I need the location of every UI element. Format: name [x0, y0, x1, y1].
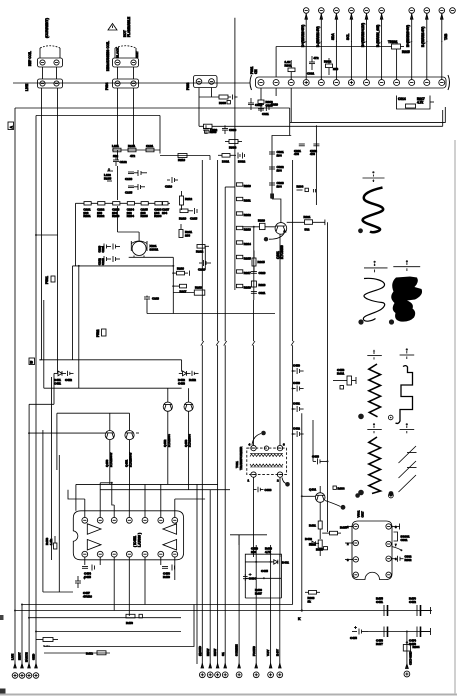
svg-text:470/16: 470/16	[83, 594, 92, 598]
svg-text:C465: C465	[261, 569, 268, 573]
svg-text:1k: 1k	[308, 599, 312, 603]
pin 13	[158, 551, 164, 557]
connector P603	[113, 58, 139, 67]
C460 on x292.6	[292, 381, 304, 392]
labels above box	[251, 547, 272, 554]
terminal pin TAB	[450, 8, 456, 14]
cap C102	[113, 155, 127, 166]
svg-text:C451: C451	[54, 381, 61, 385]
terminal M7	[268, 664, 274, 678]
winding secondary	[250, 464, 283, 466]
wire y226.8 base line	[242, 219, 275, 301]
svg-text:CRT-GND: CRT-GND	[409, 651, 413, 665]
right-mid cluster R210	[179, 208, 198, 221]
resistor R317	[236, 270, 251, 275]
svg-text:R205: R205	[141, 214, 149, 218]
svg-text:473: 473	[294, 152, 299, 156]
svg-text:R459: R459	[163, 575, 170, 579]
pin 2 bottom-right	[277, 472, 282, 477]
resistor R471	[43, 638, 53, 642]
svg-text:C463: C463	[312, 455, 319, 459]
svg-text:R485: R485	[316, 548, 323, 552]
svg-text:TRANSFORMER: TRANSFORMER	[239, 446, 243, 470]
CRT socket	[345, 521, 397, 580]
waveform W6 zigzag	[358, 437, 393, 496]
svg-text:R477: R477	[376, 642, 383, 646]
svg-text:R476: R476	[409, 597, 416, 601]
connector P602	[38, 79, 63, 88]
connector P604	[113, 79, 139, 88]
svg-text:R481: R481	[309, 524, 316, 528]
svg-text:C213: C213	[101, 258, 105, 265]
big caps row2 C473	[376, 627, 388, 646]
svg-text:B: B	[30, 360, 33, 365]
svg-text:P501: P501	[45, 276, 49, 284]
C459 on x292.6	[292, 364, 304, 375]
svg-text:WHT: WHT	[135, 51, 139, 58]
wire y313.5	[147, 300, 275, 313]
label P501	[45, 276, 55, 284]
wire y631.5	[36, 631, 181, 633]
svg-text:D461: D461	[282, 561, 289, 565]
svg-text:C461: C461	[293, 402, 300, 406]
diode pair D451	[54, 371, 74, 386]
middle vertical bundle wires	[197, 160, 293, 664]
svg-text:FOCUS: FOCUS	[252, 646, 256, 656]
inductor L102	[104, 169, 113, 181]
svg-text:R216: R216	[177, 267, 184, 271]
svg-text:473: 473	[310, 152, 315, 156]
R816 cluster below bar left	[258, 100, 273, 112]
svg-text:S0381: S0381	[150, 247, 159, 251]
svg-text:R314: R314	[244, 242, 251, 246]
svg-text:C458: C458	[337, 368, 345, 372]
resistors R470 on y616	[126, 614, 142, 625]
svg-text:SCL: SCL	[346, 34, 350, 40]
svg-text:E-(WARM-9V): E-(WARM-9V)	[421, 27, 425, 47]
svg-text:P803: P803	[186, 82, 190, 90]
svg-text:C901: C901	[401, 538, 408, 542]
wires around quads	[54, 373, 189, 489]
wire break marks y343	[201, 341, 294, 346]
svg-text:DEGAUSSING COIL: DEGAUSSING COIL	[106, 41, 110, 71]
terminal T3	[26, 664, 32, 679]
vertical x272 with caps	[269, 136, 291, 200]
pin 9	[97, 551, 103, 557]
wire x29.1 down	[28, 404, 30, 668]
svg-text:C452: C452	[65, 378, 72, 382]
C902 cap right	[391, 555, 412, 562]
pin 6	[158, 517, 164, 523]
svg-text:L101: L101	[112, 144, 119, 148]
svg-text:4.7k: 4.7k	[265, 550, 271, 554]
D462 cluster	[305, 537, 328, 552]
svg-text:4.7k: 4.7k	[417, 101, 423, 105]
svg-text:R101: R101	[128, 144, 136, 148]
R804 under bus	[225, 140, 242, 150]
pin 7	[172, 517, 178, 523]
wire coil1 pins	[39, 67, 57, 505]
wire y604.5	[22, 604, 293, 606]
small bits y186-196	[297, 185, 316, 193]
bus y126.3	[199, 125, 443, 127]
svg-text:R202: R202	[97, 214, 105, 218]
transistor Q301	[264, 199, 287, 259]
svg-text:C103: C103	[125, 177, 133, 181]
svg-text:R317: R317	[244, 271, 251, 275]
socket pin L4	[353, 572, 358, 577]
svg-text:472: 472	[130, 154, 135, 158]
svg-text:C211: C211	[101, 246, 105, 253]
big caps row1 C472	[409, 597, 431, 616]
terminal pin 7	[409, 8, 415, 80]
caps pair row 1	[98, 244, 121, 253]
svg-text:R312: R312	[244, 213, 251, 217]
resistor R315 vertical	[252, 251, 265, 273]
component y195-207	[180, 191, 193, 210]
page bottom edge	[0, 694, 457, 696]
svg-text:(E)GND: (E)GND	[198, 646, 202, 656]
diode pair D452	[178, 371, 199, 386]
cap block 3 (C203/R203)	[112, 202, 120, 218]
transformer feed wires	[254, 234, 281, 557]
pin 2	[97, 517, 103, 523]
svg-text:D-(WARM-5V): D-(WARM-5V)	[316, 26, 320, 47]
resistor R216	[172, 267, 189, 276]
socket pin R1	[386, 524, 391, 529]
svg-text:K: K	[298, 617, 301, 621]
wire: y235 stub	[36, 234, 58, 236]
wire X201 top	[118, 206, 140, 232]
svg-text:SDA: SDA	[331, 33, 335, 40]
svg-text:104: 104	[277, 168, 282, 172]
label P502 box	[96, 329, 106, 337]
svg-text:R904: R904	[413, 645, 420, 649]
wire bus y388.2	[44, 387, 182, 389]
C814 box below bar	[397, 96, 443, 127]
terminal pin 4	[349, 8, 355, 80]
R462 under transformer	[254, 487, 272, 492]
cap C105	[125, 184, 145, 195]
svg-text:CRT: CRT	[361, 511, 365, 517]
cluster on x302 top	[294, 144, 305, 156]
coil L601 body	[40, 46, 60, 58]
svg-text:B-(WARM_GN): B-(WARM_GN)	[376, 25, 380, 47]
D463 cluster above	[308, 542, 310, 544]
terminal pin 8	[424, 8, 430, 80]
bottom-middle terminals	[198, 644, 283, 677]
svg-text:R802: R802	[324, 60, 332, 64]
cap block 4 (C204/R204)	[127, 202, 135, 218]
svg-text:FLAMMABLE: FLAMMABLE	[127, 17, 131, 37]
svg-text:R204: R204	[127, 214, 135, 218]
cap pair row	[125, 170, 147, 181]
pin 10	[111, 551, 117, 557]
scope marker M4	[367, 350, 382, 360]
curve to dot from pin4	[252, 434, 261, 446]
cluster C216	[198, 260, 211, 272]
wire y222.3 right of Q301	[287, 215, 325, 232]
svg-text:R815: R815	[402, 50, 410, 54]
svg-text:C311: C311	[259, 291, 266, 295]
scope marker M7	[400, 423, 415, 433]
wire emitter bus y257.3	[129, 256, 174, 314]
wire y484.4	[76, 484, 218, 510]
svg-text:CN: CN	[254, 69, 258, 74]
svg-text:104: 104	[277, 184, 282, 188]
svg-text:SCREEN: SCREEN	[235, 644, 239, 656]
resistor R313	[236, 226, 251, 231]
cap block 5 (C205/R205)	[141, 202, 149, 218]
pin 6 top-right	[277, 445, 282, 450]
spark gap right of socket	[391, 524, 410, 552]
svg-text:R320: R320	[258, 219, 265, 223]
svg-text:Q461: Q461	[309, 488, 316, 492]
svg-text:R315: R315	[258, 260, 266, 264]
svg-text:R318: R318	[244, 285, 251, 289]
waveform W1 thick sine	[358, 188, 383, 234]
svg-text:C812: C812	[255, 103, 263, 107]
cluster x316 top	[310, 144, 319, 156]
box R218	[173, 286, 205, 296]
wire y534.8 left of box	[230, 535, 267, 545]
wire y653	[44, 652, 110, 654]
svg-text:R112: R112	[185, 197, 192, 201]
scope marker M6	[367, 423, 382, 433]
connector P601	[38, 58, 63, 67]
bus y200 row of caps	[76, 202, 171, 266]
cap C218b	[144, 296, 159, 301]
caps under IC right	[162, 565, 175, 579]
svg-text:R902: R902	[405, 558, 412, 562]
terminal M3	[215, 664, 221, 678]
cluster caps under bus left	[203, 125, 237, 134]
resistor R482 vertical	[309, 540, 322, 556]
cap block 2 (C202/R202)	[97, 202, 105, 218]
wire y646.5	[44, 605, 194, 647]
scan artifact left margin	[0, 615, 4, 620]
svg-text:( IC451: ( IC451	[133, 536, 137, 547]
scan artifact bottom-left corner	[0, 689, 6, 694]
resistor R103	[146, 148, 154, 152]
svg-text:C459: C459	[293, 364, 300, 368]
svg-text:100: 100	[251, 550, 256, 554]
svg-text:104: 104	[162, 211, 167, 215]
transistor Q450	[105, 424, 114, 467]
C461 on x292.6	[292, 402, 304, 413]
pin 14	[172, 551, 178, 557]
svg-text:G1: G1	[221, 652, 225, 656]
box D461 block	[243, 554, 289, 598]
svg-text:103: 103	[185, 233, 190, 237]
vertical text label IC461	[357, 510, 365, 517]
pin 8	[82, 551, 88, 557]
svg-text:R110: R110	[178, 158, 185, 162]
svg-text:C803: C803	[229, 128, 237, 132]
svg-text:C802: C802	[210, 128, 218, 132]
wire y489.7	[100, 489, 230, 491]
inline cap C811 on y108	[262, 103, 278, 117]
resistor R481 vertical	[309, 502, 322, 539]
capacitor C823	[269, 181, 284, 188]
ladder resistors	[235, 18, 251, 290]
svg-text:472: 472	[314, 56, 319, 60]
svg-text:LIVE: LIVE	[11, 654, 15, 660]
svg-text:C110: C110	[165, 185, 172, 189]
svg-text:1.2k: 1.2k	[49, 539, 53, 545]
resistor R483 horizontal	[322, 526, 347, 535]
wire P803 down	[199, 88, 212, 127]
thermistor TH801	[276, 40, 410, 80]
bottom-left terminals	[11, 652, 39, 678]
svg-text:B+(WARM+12V): B+(WARM+12V)	[361, 23, 365, 47]
resistor R102	[128, 148, 136, 152]
svg-text:C453: C453	[178, 381, 185, 385]
transistor Q451	[125, 424, 139, 467]
socket pin L3	[353, 557, 358, 562]
svg-text:R304: R304	[297, 185, 304, 189]
svg-text:NEUT: NEUT	[18, 652, 22, 660]
waveform W5 step	[396, 366, 413, 424]
terminal T1	[12, 664, 18, 679]
winding primary	[250, 454, 283, 456]
svg-text:R470: R470	[126, 621, 133, 625]
bus y122.4	[289, 108, 291, 136]
svg-text:C811: C811	[262, 112, 269, 116]
wires bar left circles down	[261, 88, 291, 122]
svg-text:V-DY: V-DY	[266, 649, 270, 656]
R802 cluster on bar	[324, 58, 338, 75]
svg-text:TAB: TAB	[444, 33, 448, 40]
wire: bus y108	[15, 107, 290, 109]
resistor R461 cluster	[333, 368, 356, 389]
IC top wires	[43, 482, 205, 592]
C462 on x292.6	[292, 427, 304, 438]
op-amp A2	[87, 540, 101, 551]
cap block 1 (C201/R201)	[83, 202, 91, 218]
wire y610.5	[15, 610, 432, 612]
capacitor C822	[269, 165, 284, 172]
center pin circle	[264, 446, 268, 450]
big caps row1 C471	[376, 597, 388, 616]
svg-text:EARTH: EARTH	[25, 652, 29, 662]
paren left of bar	[250, 75, 252, 90]
wire x181.6 down	[181, 360, 183, 372]
svg-text:D802: D802	[238, 160, 246, 164]
mid-left tuner cluster	[104, 144, 160, 200]
C801 cluster on bar	[307, 56, 319, 76]
svg-text:103: 103	[333, 67, 338, 71]
svg-text:C101: C101	[146, 144, 154, 148]
svg-text:R201: R201	[83, 214, 91, 218]
pin 3	[111, 517, 117, 523]
connector P803	[194, 76, 218, 88]
svg-text:C460: C460	[293, 381, 300, 385]
paren right of bar	[448, 75, 450, 90]
pin 11	[126, 551, 132, 557]
svg-text:TH801: TH801	[388, 40, 398, 44]
svg-text:C215: C215	[190, 217, 198, 221]
terminal M6	[253, 664, 259, 678]
resistor R101	[113, 148, 121, 152]
op-amp A1	[87, 524, 101, 535]
svg-text:C105: C105	[125, 191, 133, 195]
svg-text:C462: C462	[293, 427, 300, 431]
cap block 7 (C207)	[162, 202, 170, 215]
transistor Q461	[309, 486, 345, 510]
R110 resistor right of cluster	[160, 154, 210, 163]
transformer T461 dashed box	[235, 431, 290, 487]
svg-text:104: 104	[277, 153, 282, 157]
wire across	[245, 577, 281, 579]
wire vertical x302	[301, 413, 303, 610]
terminal M1	[199, 664, 205, 678]
dots above socket	[355, 493, 393, 498]
svg-text:R206: R206	[154, 214, 162, 218]
scope marker M3	[393, 260, 420, 271]
op-amp A3	[163, 524, 177, 535]
terminal pin 6	[379, 8, 385, 80]
wire: vertical x15 left	[14, 108, 16, 668]
label HIGH VOLTAGE vertical	[123, 17, 131, 37]
diode D461	[274, 560, 278, 564]
svg-text:R472: R472	[86, 652, 93, 656]
cluster y243-253	[196, 245, 209, 271]
resistor R312	[236, 212, 251, 217]
cluster y152-160	[218, 153, 246, 164]
svg-text:R464: R464	[338, 487, 345, 491]
svg-text:C102: C102	[120, 160, 128, 164]
svg-text:C801: C801	[307, 72, 315, 76]
C463 cap near x316	[312, 455, 329, 465]
svg-text:R315: R315	[244, 256, 251, 260]
svg-text:E+(WARM+9V): E+(WARM+9V)	[406, 25, 410, 47]
caps under IC left	[82, 565, 95, 579]
svg-text:D801: D801	[222, 160, 230, 164]
svg-text:BLACK: BLACK	[116, 47, 120, 58]
svg-text:C310: C310	[259, 271, 266, 275]
node dots	[255, 561, 257, 563]
socket pin L1	[353, 524, 358, 529]
terminal bottom right	[404, 651, 413, 677]
caps pair row 2	[98, 256, 121, 265]
svg-text:C466: C466	[265, 488, 272, 492]
waveform W4 zigzag	[358, 364, 393, 420]
svg-text:R452: R452	[189, 378, 196, 382]
wire y496.3 right	[301, 495, 316, 497]
socket pin L2	[353, 540, 358, 545]
scope marker M1	[363, 171, 385, 182]
curve to dot from pin2	[282, 478, 286, 484]
transistor Q453	[184, 396, 193, 447]
wire: vertical x22 left	[21, 605, 23, 669]
resistor R217	[172, 284, 187, 293]
socket pin R4	[386, 572, 391, 577]
svg-text:R310: R310	[244, 184, 251, 188]
left long verticals to IC	[43, 377, 59, 592]
R903 under socket right	[305, 591, 320, 604]
waveform W7 sawtooth	[399, 446, 417, 492]
electrolytic C464	[244, 574, 246, 576]
svg-text:R316: R316	[259, 283, 266, 287]
svg-text:1.2k: 1.2k	[285, 60, 291, 64]
R801 cluster on bar wire	[285, 60, 296, 80]
wire bus y413.2	[57, 412, 130, 414]
terminal pin 3	[334, 8, 340, 80]
wire bus y433.1	[29, 432, 105, 434]
terminal labels vertical	[301, 23, 448, 47]
svg-text:R105: R105	[104, 176, 112, 180]
